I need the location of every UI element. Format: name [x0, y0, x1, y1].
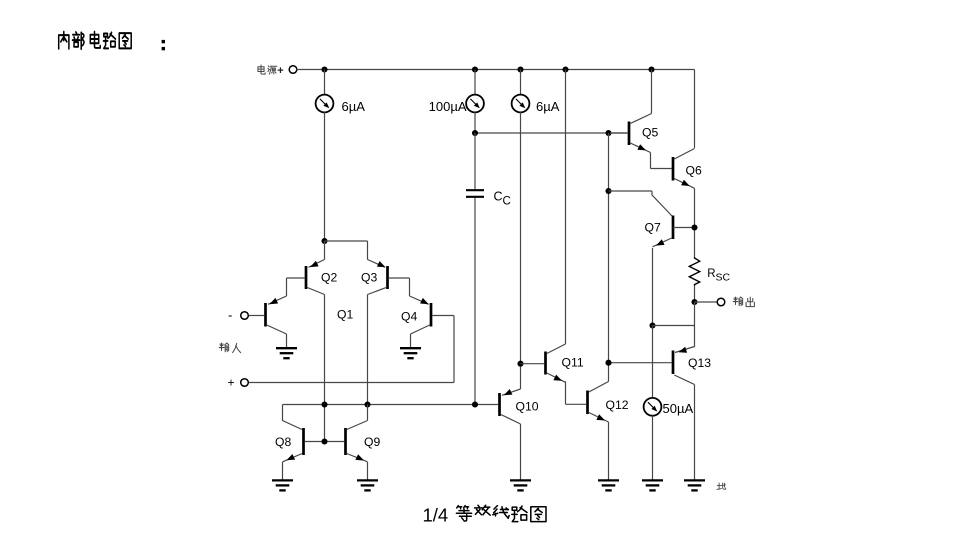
label 电源+ text [258, 65, 265, 74]
svg-text:-: - [228, 308, 232, 323]
transistor Q9 [346, 421, 368, 462]
wire Q7 base lead [673, 227, 695, 229]
wire tail to Q2 emitter [324, 241, 326, 260]
svg-text:Q1: Q1 [337, 308, 353, 322]
wire Q8-Q9 base tie [305, 441, 344, 443]
wire I2 to Q5 base net [474, 112, 476, 133]
svg-text:+: + [228, 376, 235, 390]
node I2-CC-Q5base [472, 130, 478, 136]
wire rail to I3 [520, 70, 522, 95]
wire + input run [248, 382, 454, 384]
wire CC bottom lead to Q10 base net [474, 198, 476, 405]
current source I3 6uA [512, 95, 530, 113]
label 输入 text [219, 343, 229, 352]
ground Q1 [276, 348, 297, 358]
transistor Q8 [283, 428, 304, 462]
wire output to Q13 emitter [675, 302, 695, 353]
label 地 text [717, 483, 726, 489]
node output [691, 299, 697, 305]
node rail-Q5 [648, 66, 654, 72]
wire Q13 to ground [694, 385, 696, 480]
wire Q7 emitter down [652, 248, 654, 326]
wire Q3 collector down [367, 295, 369, 405]
wire Q13 base net [609, 362, 672, 364]
wire Q9 collector [367, 405, 369, 421]
wire I1 to input pair tail [324, 112, 326, 241]
wire Q5 base lead [610, 132, 628, 134]
wire Q4 base lead [433, 316, 455, 383]
transistor Q7 [653, 216, 674, 247]
wire CC top lead [474, 133, 476, 189]
current source I4 50uA [644, 398, 662, 416]
ground Q12 [598, 480, 619, 490]
svg-text:+: + [277, 65, 283, 77]
transistor Q11 [546, 344, 566, 382]
svg-text:1/4: 1/4 [423, 505, 449, 526]
terminal 电源+ [289, 66, 297, 74]
wire Q1 collector to ground [286, 334, 288, 347]
node column-Q13base [605, 360, 611, 366]
ground Q8 [272, 480, 293, 490]
label 输出 text [733, 297, 743, 306]
transistor Q13 [673, 347, 695, 385]
wire rail to I1 [324, 70, 326, 95]
wire Q10 emitter up [520, 364, 522, 389]
node Q2col-mirror [321, 401, 327, 407]
wire Q12 emitter to ground [608, 422, 610, 480]
node I3-Q10-Q11 [517, 361, 523, 367]
node Q7base-RSCnet [691, 224, 697, 230]
svg-text:100µA: 100µA [429, 99, 467, 114]
wire rail to I2 [474, 70, 476, 95]
svg-text:Q12: Q12 [606, 398, 629, 412]
wire output stub [695, 301, 718, 303]
wire tail to Q3 emitter [325, 241, 368, 260]
svg-text:Q5: Q5 [642, 125, 658, 139]
wire Q2 collector down to mirror [324, 295, 326, 442]
resistor RSC [689, 257, 699, 286]
node Q3col-mirror [364, 401, 370, 407]
wire down to I4 [652, 326, 654, 399]
wire Q2 base to Q1 emitter [287, 278, 305, 296]
svg-text:Q3: Q3 [361, 271, 377, 285]
wire mirror top rail y404 [283, 404, 499, 406]
transistor Q12 [588, 382, 609, 423]
wire RSC to output node [694, 286, 696, 303]
capacitor CC [466, 190, 484, 197]
wire - input to Q1 base [248, 315, 264, 317]
node rail-6uA2 [517, 66, 523, 72]
transistor Q3 [368, 260, 388, 295]
wire Q5 collector to rail [651, 70, 653, 114]
transistor Q2 [306, 260, 325, 295]
wire Q5 emitter to Q6 base [651, 153, 672, 169]
wire Q10 to ground [520, 424, 522, 480]
wire I4 to ground [652, 415, 654, 479]
node Q7emitter-tie [649, 322, 655, 328]
ground Q13 [684, 480, 705, 490]
svg-text:Q9: Q9 [364, 435, 380, 449]
wire left column vertical x608 [608, 133, 610, 382]
current source I1 6uA [316, 95, 334, 113]
svg-text:Q4: Q4 [401, 310, 417, 324]
node column-Q7 [605, 188, 611, 194]
transistor Q5 [629, 114, 652, 153]
transistor Q1 [266, 296, 287, 334]
svg-text:Q11: Q11 [562, 355, 584, 369]
svg-text:Q7: Q7 [645, 221, 661, 235]
terminal inverting input [241, 312, 249, 320]
wire Q9 emitter to ground [367, 462, 369, 480]
svg-text:Q8: Q8 [275, 435, 291, 449]
svg-text:6µA: 6µA [536, 99, 560, 114]
ground Q10 [510, 480, 531, 490]
current source I2 100uA [466, 95, 484, 113]
svg-text:6µA: 6µA [342, 99, 366, 114]
wire to Q11 base [521, 363, 545, 365]
wire Q11 collector to rail [565, 70, 567, 345]
svg-text:Q6: Q6 [686, 163, 702, 177]
wire Q7 collector path [609, 191, 673, 216]
ground I4 [642, 480, 663, 490]
wire top supply rail [297, 69, 695, 71]
node rail-6uA1 [321, 66, 327, 72]
wire Q4 collector to ground [410, 334, 412, 347]
node Q5base-column [605, 130, 611, 136]
wire Q11 emitter to Q12 base [566, 381, 587, 404]
wire Q8 emitter to ground [282, 462, 284, 480]
svg-text:50µA: 50µA [663, 401, 694, 416]
wire Q6 emitter down to RSC [694, 188, 696, 257]
title text 内部电路图： [59, 32, 165, 51]
wire I3 down to Q11 base node [520, 112, 522, 364]
node tail [321, 238, 327, 244]
ground Q9 [357, 480, 378, 490]
wire 100uA node to Q5 base [475, 132, 628, 134]
wire tie Q7 emitter to output leg [653, 325, 695, 327]
terminal non-inverting input [241, 379, 249, 387]
node CC-mirror [472, 401, 478, 407]
svg-text:Q13: Q13 [688, 356, 711, 370]
terminal 输出 [717, 298, 725, 306]
node rail-100uA [472, 66, 478, 72]
transistor Q10 [500, 389, 521, 424]
transistor Q6 [673, 149, 695, 189]
node mirror bases [321, 438, 327, 444]
wire right rail drop to Q6 [694, 70, 696, 149]
svg-text:Q10: Q10 [516, 399, 539, 413]
wire Q3 base to Q4 emitter [389, 278, 410, 296]
node rail-Q11 [562, 66, 568, 72]
transistor Q4 [410, 296, 432, 334]
ground Q4 [400, 348, 421, 358]
svg-text:Q2: Q2 [321, 271, 337, 285]
wire Q8 collector [283, 405, 303, 430]
